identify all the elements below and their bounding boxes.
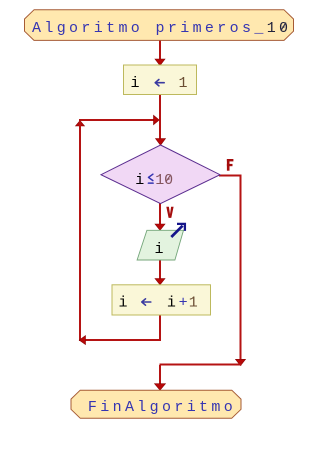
svg-text:i: i	[118, 295, 127, 312]
label F	[227, 159, 234, 171]
assign arrow left in box2	[142, 299, 151, 305]
arrowhead into parallelogram	[155, 224, 165, 230]
svg-text:FinAlgoritmo: FinAlgoritmo	[88, 399, 236, 416]
wire down into FinAlgoritmo	[159, 365, 161, 384]
process box i <- 1	[124, 65, 197, 95]
slash of zero in 10	[166, 175, 171, 182]
wire below i<-i+1 box	[159, 315, 161, 341]
svg-text:0: 0	[164, 172, 173, 189]
terminator FinAlgoritmo	[71, 390, 241, 418]
assign arrow left in box1	[155, 80, 164, 86]
loop-back top horizontal wire	[79, 119, 154, 121]
arrowhead into diamond	[156, 139, 166, 146]
arrowhead into i<-1 box	[155, 59, 165, 66]
svg-text:1: 1	[155, 172, 164, 189]
svg-text:+: +	[179, 295, 188, 312]
arrowhead into i<-i+1 box	[155, 279, 165, 285]
arrowhead loop rejoin (points right)	[154, 115, 160, 124]
output parallelogram	[137, 230, 183, 260]
slash of zero in primeros_10	[281, 23, 286, 31]
arrowhead F branch bottom (points down)	[236, 359, 246, 365]
svg-text:Algoritmo primeros_10: Algoritmo primeros_10	[32, 20, 291, 37]
arrowhead loop-back corner (points up)	[76, 121, 85, 126]
decision diamond	[101, 145, 220, 204]
wire from Algoritmo to i<-1	[159, 40, 161, 60]
svg-text:1: 1	[178, 75, 187, 92]
arrowhead into FinAlgoritmo	[155, 384, 166, 391]
terminator Algoritmo primeros_10	[25, 10, 294, 41]
loop-back bottom horizontal wire	[80, 339, 161, 341]
wire from i<-1 to diamond	[159, 95, 161, 140]
svg-text:i: i	[167, 295, 176, 312]
bottom horizontal wire to center	[160, 364, 242, 366]
wire from diamond to parallelogram	[159, 203, 161, 225]
process box i <- i+1	[112, 285, 211, 315]
loop-back left vertical wire	[79, 121, 81, 341]
svg-text:i: i	[154, 241, 163, 258]
F branch horizontal wire from diamond	[219, 175, 242, 177]
svg-text:i: i	[130, 75, 139, 92]
svg-text:1: 1	[189, 295, 198, 312]
print arrow icon (blue NE arrow)	[171, 224, 185, 237]
F branch right vertical wire	[240, 175, 242, 360]
condition operator "<="	[148, 174, 153, 183]
label V	[166, 207, 173, 218]
arrowhead loop-back bottom corner (points left)	[79, 336, 85, 345]
svg-text:i: i	[135, 172, 144, 189]
wire from parallelogram to i<-i+1	[159, 260, 161, 279]
